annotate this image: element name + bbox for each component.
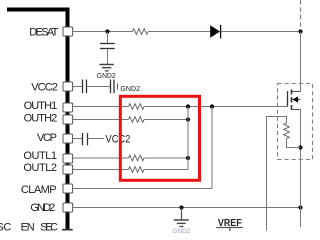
svg-text:OUTH2: OUTH2 bbox=[24, 112, 58, 124]
svg-text:CLAMP: CLAMP bbox=[21, 184, 57, 196]
svg-text:OUTH1: OUTH1 bbox=[24, 100, 58, 112]
svg-text:EN: EN bbox=[21, 222, 35, 234]
svg-text:VCC2: VCC2 bbox=[106, 134, 131, 146]
svg-text:GND2: GND2 bbox=[172, 228, 190, 235]
svg-text:SC: SC bbox=[0, 222, 11, 234]
svg-text:GND2: GND2 bbox=[120, 84, 140, 93]
svg-text:VCC2: VCC2 bbox=[31, 82, 58, 94]
svg-text:SEC: SEC bbox=[40, 222, 58, 234]
svg-text:OUTL1: OUTL1 bbox=[23, 150, 57, 162]
svg-text:GND2: GND2 bbox=[97, 71, 116, 80]
svg-text:VCP: VCP bbox=[37, 132, 57, 144]
svg-text:OUTL2: OUTL2 bbox=[23, 162, 57, 174]
svg-text:GND2: GND2 bbox=[30, 202, 55, 214]
svg-text:DESAT: DESAT bbox=[29, 27, 58, 39]
